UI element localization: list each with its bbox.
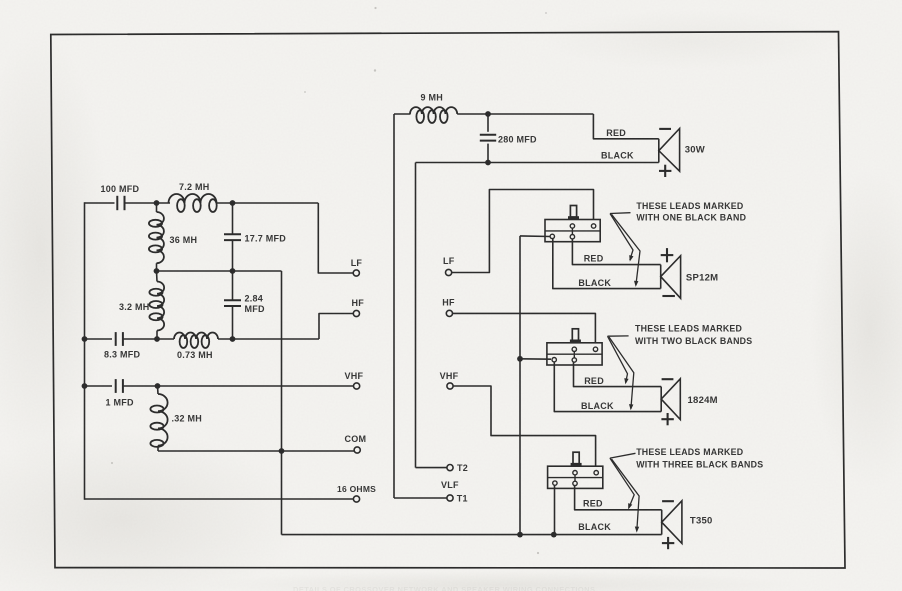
wire top rail right: [457, 113, 593, 115]
callout leader line group2: [608, 335, 629, 337]
callout text three black bands: [636, 447, 763, 469]
wire HF to strip2: [453, 313, 596, 347]
callout arrow to BLACK SP12M: [612, 214, 641, 287]
capacitor 280 MFD: [480, 114, 537, 163]
node bus-row4 junction: [82, 383, 88, 389]
node K junction 280MFD top: [485, 111, 491, 117]
wire row1 mid segment: [125, 202, 170, 204]
wire row4 left segment: [85, 385, 113, 387]
wire row1 right segment: [217, 202, 319, 204]
label BLACK 30W: [601, 151, 634, 161]
wire row4 segment to VHF: [123, 385, 354, 387]
terminal 16 OHMS: [337, 484, 376, 502]
inductor 7.2 MH: [169, 182, 217, 212]
label BLACK 1824M: [581, 401, 614, 411]
wire BLACK lead 1824M: [554, 362, 661, 412]
wire left bus: [84, 202, 86, 500]
node E junction row3: [154, 336, 160, 342]
wire top rail left: [394, 113, 411, 115]
node I junction bottom rail: [517, 532, 523, 538]
node C junction row2: [154, 268, 160, 274]
speaker 30W: [659, 129, 705, 178]
callout arrow to BLACK T350: [612, 459, 640, 533]
terminal VHF left: [345, 371, 364, 389]
speaker SP12M: [661, 248, 719, 298]
wire row3 mid segment: [123, 338, 174, 340]
node B junction row1: [230, 200, 236, 206]
callout leader line group1: [610, 212, 631, 215]
wire strip1 feed from drop: [520, 235, 550, 238]
wire LF drop: [318, 203, 353, 273]
callout arrow to RED SP12M: [610, 214, 634, 262]
wire strip3 to bottom rail: [554, 486, 556, 535]
node bus-row3 junction: [82, 336, 88, 342]
capacitor 100 MFD: [101, 184, 140, 210]
callout arrow to RED T350: [610, 458, 634, 509]
wire row2: [157, 270, 282, 272]
wire HF riser: [319, 314, 353, 340]
wire LF to strip1: [452, 190, 594, 273]
label BLACK T350: [578, 522, 611, 532]
wire row1 left segment: [85, 202, 115, 204]
terminal HF left: [352, 298, 365, 317]
wire BLACK lead SP12M: [553, 239, 661, 289]
speaker T350: [662, 501, 713, 549]
label RED 1824M: [584, 376, 604, 386]
border frame: [51, 32, 845, 568]
wire RED step to 30W: [593, 114, 658, 139]
terminal T2: [447, 463, 468, 473]
label VLF: [441, 480, 459, 490]
wire RED lead 1824M: [574, 362, 662, 387]
label BLACK SP12M: [578, 278, 611, 288]
wire RED lead T350: [575, 486, 662, 510]
label RED SP12M: [584, 253, 604, 263]
inductor 9 MH: [410, 93, 457, 124]
callout arrow to BLACK 1824M: [609, 337, 634, 410]
terminal strip TS2: [547, 329, 602, 365]
label RED 30W: [606, 128, 626, 138]
capacitor 1 MFD: [106, 379, 135, 408]
callout leader line group3: [610, 453, 636, 458]
wire mid rail BLACK to 30W: [416, 162, 659, 164]
node J junction bottom rail: [551, 532, 557, 538]
inductor 36 MH: [149, 203, 197, 271]
wire T1 drop: [394, 114, 447, 498]
wire row3 left segment: [85, 338, 113, 340]
speaker 1824M: [661, 379, 718, 426]
terminal T1: [447, 494, 468, 504]
node A junction row1: [154, 200, 160, 206]
inductor 3.2 MH: [119, 271, 164, 339]
capacitor 2.84 MFD: [224, 271, 265, 339]
wire strip2 feed from drop: [520, 358, 551, 360]
node G junction row4: [155, 383, 161, 389]
wire bottom common rail: [282, 534, 662, 536]
callout text two black bands: [635, 323, 752, 346]
node L junction 280MFD bottom: [485, 160, 491, 166]
wire VHF to strip3: [453, 386, 595, 470]
terminal LF left: [351, 258, 363, 276]
wire mid drop to bottom rail: [281, 271, 283, 535]
terminal COM: [345, 434, 367, 453]
wire COM rail: [158, 450, 354, 452]
inductor 0.73 MH: [174, 333, 218, 361]
wire 16 ohm rail: [85, 498, 354, 500]
capacitor 8.3 MFD: [104, 332, 141, 359]
callout text one black band: [636, 201, 746, 223]
node D junction row2: [230, 268, 236, 274]
node F junction row3: [230, 336, 236, 342]
label RED T350: [583, 498, 603, 508]
terminal strip TS1: [545, 206, 600, 242]
terminal VHF right: [440, 371, 459, 389]
wire row3 right segment: [218, 338, 319, 340]
node H junction COM rail: [279, 448, 285, 454]
terminal LF right: [443, 256, 455, 276]
node M junction x520 drop: [517, 356, 523, 362]
callout arrow to RED 1824M: [608, 336, 629, 384]
wire T2 drop: [416, 163, 447, 468]
capacitor 17.7 MFD: [224, 203, 286, 271]
wire RED lead SP12M: [572, 239, 660, 265]
terminal HF right: [442, 298, 455, 317]
wire drop x520: [519, 236, 521, 535]
terminal strip TS3: [548, 452, 603, 488]
inductor .32 MH: [150, 386, 202, 451]
